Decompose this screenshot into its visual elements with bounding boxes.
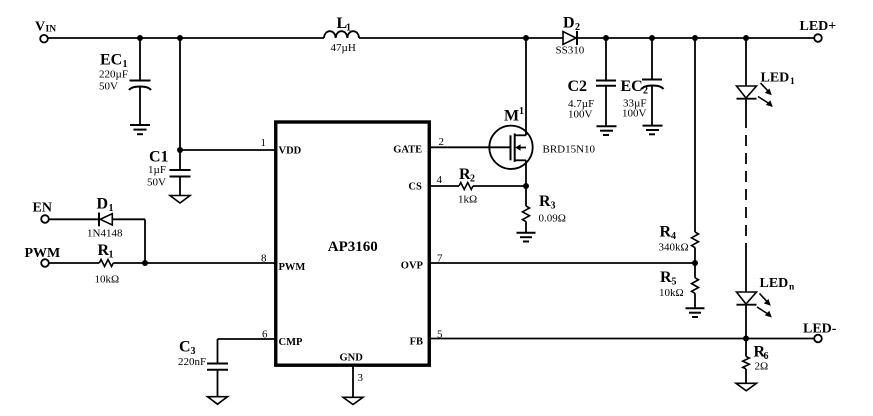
svg-text:8: 8	[261, 253, 267, 265]
svg-text:R: R	[660, 224, 672, 241]
svg-text:1: 1	[109, 203, 114, 214]
svg-text:C1: C1	[149, 149, 169, 166]
svg-text:220µF: 220µF	[99, 69, 128, 81]
svg-text:50V: 50V	[99, 81, 118, 93]
svg-text:2: 2	[439, 136, 445, 148]
svg-text:SS310: SS310	[556, 45, 585, 57]
svg-text:R: R	[660, 269, 672, 286]
svg-text:2Ω: 2Ω	[755, 361, 769, 373]
svg-text:V: V	[35, 20, 45, 35]
svg-text:EC: EC	[621, 78, 643, 95]
svg-text:10kΩ: 10kΩ	[95, 274, 120, 286]
svg-text:220nF: 220nF	[178, 356, 206, 368]
svg-text:1: 1	[346, 23, 351, 34]
svg-text:LED: LED	[760, 276, 789, 291]
svg-text:5: 5	[672, 277, 677, 288]
svg-text:4: 4	[671, 231, 676, 242]
svg-text:6: 6	[262, 329, 268, 341]
svg-text:FB: FB	[410, 337, 423, 348]
svg-text:PWM: PWM	[25, 246, 61, 261]
svg-text:PWM: PWM	[279, 262, 306, 273]
svg-text:M: M	[504, 108, 519, 125]
svg-text:R: R	[539, 193, 551, 210]
svg-text:D: D	[97, 196, 109, 213]
svg-text:100V: 100V	[622, 108, 647, 120]
svg-text:OVP: OVP	[401, 261, 424, 272]
svg-text:IN: IN	[46, 25, 57, 35]
svg-text:CS: CS	[408, 182, 422, 193]
svg-text:1: 1	[109, 250, 114, 261]
svg-text:2: 2	[575, 22, 580, 33]
svg-text:C2: C2	[568, 78, 588, 95]
svg-text:0.09Ω: 0.09Ω	[539, 213, 566, 225]
svg-text:3: 3	[358, 372, 364, 384]
svg-text:GND: GND	[340, 353, 364, 364]
svg-text:340kΩ: 340kΩ	[659, 242, 689, 254]
svg-text:C: C	[179, 339, 191, 356]
svg-text:1µF: 1µF	[148, 164, 166, 176]
svg-text:EC: EC	[100, 52, 122, 69]
svg-text:3: 3	[551, 201, 556, 212]
svg-text:GATE: GATE	[393, 145, 422, 156]
svg-text:AP3160: AP3160	[328, 239, 378, 255]
svg-text:5: 5	[437, 329, 443, 341]
svg-text:50V: 50V	[147, 177, 166, 189]
svg-text:LED: LED	[761, 71, 790, 86]
svg-text:1: 1	[519, 106, 524, 117]
svg-text:7: 7	[437, 253, 443, 265]
svg-text:47µH: 47µH	[331, 42, 356, 54]
svg-text:4: 4	[437, 174, 443, 186]
svg-text:LED-: LED-	[803, 322, 837, 337]
svg-text:BRD15N10: BRD15N10	[543, 144, 596, 156]
svg-text:1: 1	[261, 137, 267, 149]
svg-text:10kΩ: 10kΩ	[659, 287, 684, 299]
svg-text:1: 1	[790, 77, 795, 87]
svg-text:1kΩ: 1kΩ	[458, 194, 477, 206]
svg-text:2: 2	[643, 86, 648, 97]
svg-text:100V: 100V	[568, 109, 593, 121]
svg-text:LED+: LED+	[800, 19, 837, 34]
svg-text:EN: EN	[33, 201, 52, 216]
svg-text:CMP: CMP	[279, 337, 303, 348]
svg-text:1N4148: 1N4148	[87, 228, 123, 240]
svg-text:D: D	[563, 15, 575, 32]
svg-text:n: n	[789, 283, 795, 293]
svg-text:2: 2	[470, 174, 475, 185]
svg-text:VDD: VDD	[279, 146, 302, 157]
